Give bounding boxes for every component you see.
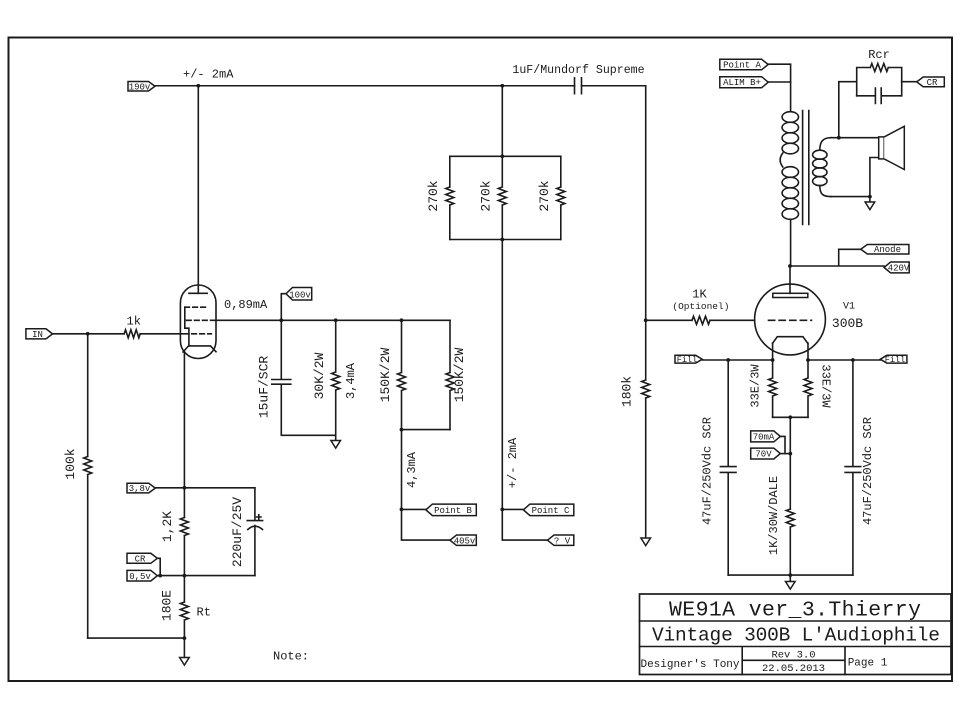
svg-text:CR: CR: [927, 78, 938, 88]
resistor 1K/30W/DALE: [767, 476, 794, 575]
wire driver cathode: [183, 351, 187, 518]
resistor 150K/2W (left): [378, 320, 406, 429]
svg-text:V1: V1: [843, 302, 855, 313]
wire 100k bottom return: [88, 637, 185, 639]
capacitor 47uF/250Vdc SCR (right): [845, 360, 875, 575]
wire filament center tap: [773, 415, 808, 509]
node 190v supply rail: [155, 84, 646, 88]
driver tube cathode: [183, 346, 216, 352]
svg-text:0,5v: 0,5v: [129, 572, 151, 582]
svg-text:30K/2W: 30K/2W: [312, 352, 327, 399]
svg-text:33E/3W: 33E/3W: [749, 364, 763, 408]
svg-text:Rev 3.0: Rev 3.0: [771, 650, 815, 662]
ground below 1K/30W: [786, 575, 796, 589]
tag ALIM B+: [720, 77, 791, 112]
svg-text:1k: 1k: [127, 315, 141, 329]
tag CR (right): [902, 77, 945, 88]
svg-text:100v: 100v: [289, 291, 311, 301]
tag Point A: [720, 59, 791, 82]
svg-text:Vintage 300B L'Audiophile: Vintage 300B L'Audiophile: [652, 625, 940, 647]
wire filament ground bus: [728, 573, 853, 577]
svg-text:Page 1: Page 1: [848, 658, 888, 670]
svg-text:Rt: Rt: [197, 606, 211, 620]
wire 270k bus top: [450, 154, 561, 158]
resistor 33E/3W (right): [804, 343, 833, 417]
tag CR (left): [127, 553, 162, 577]
wire 270k bus bottom: [450, 238, 561, 242]
ground below speaker: [865, 197, 875, 210]
resistor 180E Rt: [160, 574, 211, 640]
svg-text:405v: 405v: [454, 537, 476, 547]
tag IN: [26, 329, 53, 340]
svg-text:150K/2W: 150K/2W: [452, 347, 467, 402]
svg-text:3,4mA: 3,4mA: [344, 362, 358, 399]
capacitor 1uF/Mundorf Supreme: [512, 64, 644, 94]
resistor 1K (Optionel): [646, 288, 755, 325]
wire input: [53, 332, 189, 336]
transformer T1 secondary: [813, 136, 879, 199]
svg-text:Point A: Point A: [723, 60, 761, 70]
svg-text:270k: 270k: [479, 180, 494, 211]
wire 1uF to 300B grid: [644, 86, 648, 380]
speaker: [870, 126, 904, 196]
capacitor 15uF/SCR: [257, 320, 336, 435]
resistor 1k: [124, 315, 141, 338]
svg-text:1K: 1K: [692, 288, 707, 302]
svg-text:IN: IN: [32, 330, 43, 340]
svg-text:100k: 100k: [63, 448, 78, 479]
wire 150K bottoms to Point B: [400, 428, 450, 540]
tag 420V: [884, 262, 910, 274]
tag 190v: [128, 82, 155, 93]
wire 300B plate lead and anode rail: [788, 249, 884, 293]
svg-text:220uF/25V: 220uF/25V: [230, 497, 245, 567]
resistor 270k (middle): [479, 86, 507, 240]
resistor 30K/2W: [312, 320, 340, 435]
svg-text:300B: 300B: [832, 316, 863, 331]
tag 3,8v: [127, 483, 255, 494]
wire secondary to Rcr: [839, 82, 857, 138]
300B filament: [773, 337, 808, 344]
svg-text:Note:: Note:: [273, 650, 309, 664]
svg-text:270k: 270k: [426, 180, 441, 211]
ground below Rt: [180, 638, 190, 665]
resistor 1,2K: [160, 511, 188, 602]
driver tube grids (dashed): [185, 307, 216, 334]
svg-text:180k: 180k: [620, 376, 635, 407]
resistor 270k (left): [426, 156, 454, 239]
ground below 30K: [331, 435, 341, 448]
svg-text:Fill: Fill: [677, 355, 697, 365]
svg-text:+/- 2mA: +/- 2mA: [183, 68, 234, 82]
transformer T1 core: [803, 111, 809, 225]
resistor 180k: [620, 376, 650, 538]
resistor 33E/3W (left): [749, 343, 777, 417]
capacitor Ccr: [857, 88, 902, 103]
svg-text:420V: 420V: [888, 264, 910, 274]
svg-text:Anode: Anode: [874, 245, 901, 255]
tag Point C: [500, 504, 573, 516]
svg-text:47uF/250Vdc SCR: 47uF/250Vdc SCR: [701, 417, 715, 525]
svg-text:4,3mA: 4,3mA: [405, 451, 419, 488]
svg-text:1,2K: 1,2K: [160, 511, 175, 542]
svg-text:190v: 190v: [129, 82, 151, 92]
svg-text:Fill: Fill: [885, 355, 905, 365]
svg-text:180E: 180E: [160, 590, 175, 621]
svg-text:Point C: Point C: [532, 506, 570, 516]
resistor 270k (right): [537, 156, 565, 239]
svg-text:33E/3W: 33E/3W: [819, 364, 833, 408]
tag 405v: [450, 535, 476, 547]
tag 70mA: [751, 431, 785, 454]
svg-text:Rcr: Rcr: [868, 48, 890, 62]
resistor 150K/2W (right): [446, 320, 467, 429]
resistor Rcr: [857, 48, 902, 96]
svg-text:1K/30W/DALE: 1K/30W/DALE: [767, 476, 781, 555]
svg-text:22.05.2013: 22.05.2013: [762, 663, 825, 675]
wire filament rail: [702, 358, 880, 362]
svg-text:15uF/SCR: 15uF/SCR: [257, 356, 272, 419]
driver tube internal grid link: [185, 307, 189, 346]
svg-text:Point B: Point B: [434, 506, 472, 516]
svg-text:Designer's Tony: Designer's Tony: [640, 659, 739, 671]
wire plate lead driver tube: [197, 86, 199, 294]
tag 70V: [751, 448, 791, 460]
tag Fill (right): [880, 355, 907, 365]
svg-text:47uF/250Vdc SCR: 47uF/250Vdc SCR: [861, 417, 875, 525]
svg-text:70V: 70V: [755, 450, 772, 460]
svg-text:0,89mA: 0,89mA: [224, 298, 268, 312]
svg-text:? V: ? V: [554, 537, 571, 547]
tag 0,5v: [127, 570, 255, 581]
title block: [640, 594, 952, 675]
ground arrow below 180k: [641, 538, 651, 546]
wire 270k bottom to Point C: [502, 240, 547, 541]
svg-text:3,8v: 3,8v: [129, 484, 151, 494]
300B grid (dashed): [769, 319, 812, 321]
svg-text:(Optionel): (Optionel): [672, 301, 729, 312]
300B tube V1 envelope: [755, 284, 826, 355]
svg-text:ALIM B+: ALIM B+: [723, 78, 761, 88]
wire driver plate-load rail: [216, 318, 451, 322]
svg-text:270k: 270k: [537, 180, 552, 211]
transformer T1 primary: [780, 112, 798, 266]
svg-text:CR: CR: [135, 554, 146, 564]
300B plate: [773, 293, 808, 297]
svg-text:+/- 2mA: +/- 2mA: [506, 437, 520, 488]
svg-text:WE91A ver_3.Thierry: WE91A ver_3.Thierry: [669, 599, 921, 623]
tag Fill (left): [675, 355, 702, 365]
driver tube plate: [189, 292, 207, 294]
tag ? V: [548, 535, 574, 547]
tag Point B: [402, 504, 477, 516]
resistor 100k: [63, 334, 92, 638]
tag Anode: [861, 245, 909, 256]
svg-text:70mA: 70mA: [753, 433, 775, 443]
svg-text:150K/2W: 150K/2W: [378, 347, 393, 402]
driver tube (pentode) envelope: [180, 285, 216, 359]
capacitor 47uF/250Vdc SCR (left): [701, 360, 737, 575]
svg-text:1uF/Mundorf Supreme: 1uF/Mundorf Supreme: [512, 64, 644, 77]
tag 100v: [281, 288, 311, 321]
capacitor 220uF/25V: [230, 488, 263, 576]
